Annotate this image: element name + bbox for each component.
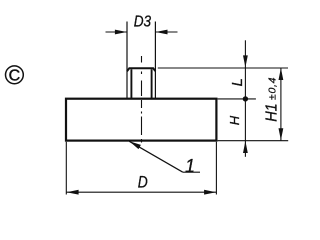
svg-text:1: 1 <box>185 156 195 176</box>
item 1 label <box>185 156 195 176</box>
svg-text:D: D <box>138 172 148 191</box>
view label C circle <box>6 66 24 85</box>
threaded stud top edge with chamfer <box>127 68 155 71</box>
dimension H1 top arrow (up) <box>279 68 284 80</box>
dimension H1 vertical line <box>280 68 282 141</box>
dimension L top arrow (down) <box>243 55 248 67</box>
stud top extension line <box>158 67 288 69</box>
dimension H bottom arrow (up) <box>243 141 248 153</box>
dimension D right extension line <box>215 142 217 195</box>
svg-text:H1: H1 <box>264 103 281 122</box>
dimension D3 line left segment with tail <box>106 30 127 35</box>
dimension L/H vertical line <box>244 40 246 157</box>
dimension D label <box>138 172 148 191</box>
dimension H label <box>227 115 242 125</box>
dimension D left arrow <box>67 190 79 195</box>
threaded stud outer right line (thread crest / D3 extension line) <box>154 22 156 99</box>
svg-text:C: C <box>9 68 21 85</box>
svg-text:±0,4: ±0,4 <box>266 77 278 100</box>
vertical centerline (dash-dot) <box>141 56 143 143</box>
body top extension line <box>218 98 256 100</box>
threaded stud outer left line (thread crest / D3 extension line) <box>126 22 128 99</box>
item 1 leader line with arrowhead <box>129 141 200 172</box>
threaded stud inner right line (core) <box>151 69 153 98</box>
dimension D right arrow <box>204 190 216 195</box>
dimension D left extension line <box>65 142 67 195</box>
dimension D3 label <box>134 14 151 31</box>
svg-text:H: H <box>227 115 242 125</box>
svg-text:D3: D3 <box>134 14 151 31</box>
dimension D3 line right segment with tail <box>156 30 178 35</box>
magnet body outline <box>66 99 216 141</box>
body bottom extension line <box>218 140 289 142</box>
dimension L/H node dot <box>243 96 248 101</box>
dimension L label <box>229 78 246 86</box>
threaded stud inner left line (core) <box>130 69 132 98</box>
dimension H1 ±0.4 label <box>264 77 281 122</box>
dimension D line <box>66 191 216 193</box>
dimension H1 bottom arrow (down) <box>279 128 284 140</box>
svg-text:L: L <box>229 78 246 86</box>
